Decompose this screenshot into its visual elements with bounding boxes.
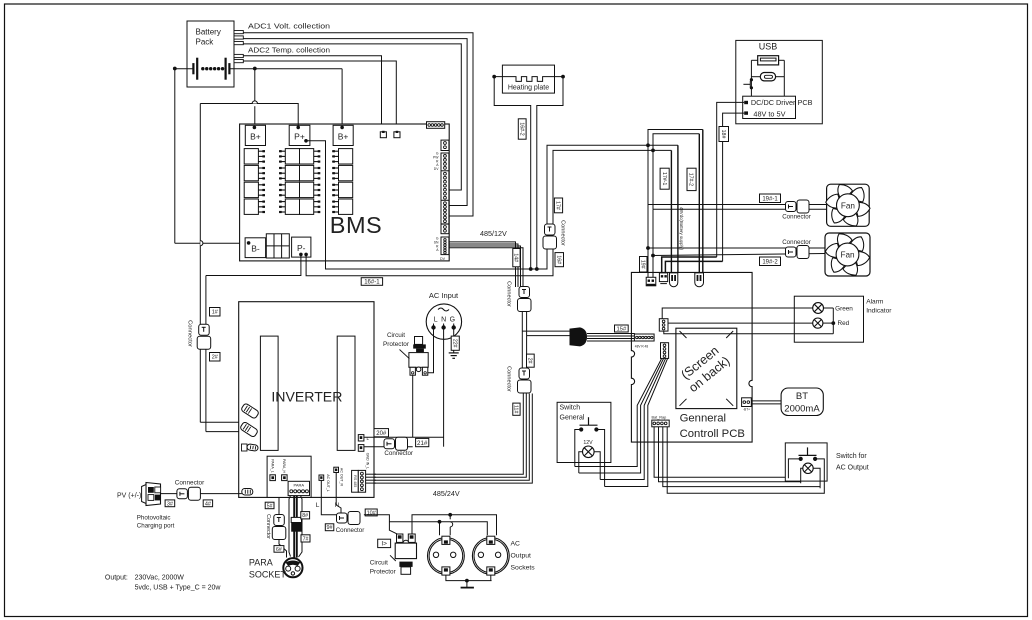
- svg-text:Output: Output: [511, 553, 532, 560]
- wire inverter L pin to connector 21# / AC-N: [364, 436, 444, 438]
- wire PARA thick pair: [293, 496, 295, 558]
- wire heating left (16#-2): [494, 77, 531, 269]
- svg-text:DV: DV: [434, 167, 439, 171]
- GND pin (AC in): [358, 445, 364, 452]
- green lamp: [813, 303, 824, 314]
- svg-text:N: N: [441, 317, 446, 324]
- label 16#-2: [518, 119, 526, 139]
- svg-text:-BT+: -BT+: [743, 408, 750, 412]
- label 2# (lower 485): [527, 354, 535, 367]
- inverter heatsink bar left: [260, 336, 278, 450]
- svg-text:Connector: Connector: [782, 239, 811, 246]
- USB-A connector: [758, 56, 779, 65]
- svg-text:Connector: Connector: [559, 220, 565, 246]
- BMS right edge connector c6: [441, 237, 449, 255]
- svg-text:I>: I>: [381, 541, 387, 548]
- connector 5#/6# plug: [274, 515, 285, 526]
- svg-text:5vdc, USB + Type_C = 20w: 5vdc, USB + Type_C = 20w: [135, 584, 222, 591]
- svg-text:48V to 5V: 48V to 5V: [753, 109, 785, 118]
- svg-text:Connector: Connector: [782, 213, 811, 220]
- AC input tilde: [438, 308, 449, 311]
- wire 48V+ long run from P+ dot: [304, 139, 308, 143]
- BMS top-right pin header: [427, 122, 445, 129]
- svg-text:ADC1 Volt. collection: ADC1 Volt. collection: [248, 22, 330, 31]
- svg-text:12V: 12V: [583, 440, 593, 446]
- AC OUT_L pin: [319, 475, 324, 480]
- ferrite blob (black): [570, 327, 588, 346]
- label 21#: [416, 438, 429, 446]
- junction dots heating to 48V bus: [529, 267, 533, 271]
- switch general box: [557, 402, 611, 462]
- svg-text:Charging port: Charging port: [137, 523, 175, 530]
- svg-text:19#: 19#: [639, 260, 645, 269]
- harness pcb to switch general (4 wires): [575, 358, 662, 466]
- AC switch pushbutton: [807, 447, 809, 455]
- label 8#: [301, 512, 310, 519]
- fan 2: [825, 233, 870, 276]
- svg-text:AC Input: AC Input: [429, 291, 459, 300]
- wire 18# jog to control pcb: [662, 257, 717, 273]
- svg-text:Sockets: Sockets: [511, 565, 536, 572]
- label 6#: [274, 546, 284, 553]
- AC input socket circle: [426, 304, 461, 339]
- alarm connector 3pin: [659, 319, 668, 331]
- label 20#: [374, 429, 389, 437]
- harness pcb Bat_Rap to AC switch (4 wires): [654, 427, 788, 477]
- svg-text:14#: 14#: [513, 253, 519, 262]
- label 22#: [451, 336, 459, 350]
- spade terminal input +: [241, 403, 260, 419]
- battery cells symbol: [175, 68, 194, 70]
- svg-text:Green: Green: [835, 305, 853, 312]
- label 19#: [640, 257, 648, 273]
- spade terminal aux with tag: [242, 444, 248, 451]
- label 19#-2: [760, 257, 781, 266]
- svg-text:Photovoltaic: Photovoltaic: [137, 515, 171, 522]
- wire ADC1-3: [243, 44, 461, 190]
- BMS temp sense pins: [380, 132, 386, 138]
- wire CP1 left tab down to inverter AC feed: [412, 375, 414, 437]
- svg-text:10#: 10#: [367, 510, 377, 516]
- label 1#: [210, 308, 221, 317]
- connector AC output harness: [337, 513, 348, 523]
- svg-text:48Vdc(Battery supply): 48Vdc(Battery supply): [679, 207, 684, 251]
- wires fan2 feed: [648, 247, 825, 249]
- wire PARA aux left: [278, 497, 280, 514]
- AC output socket 1: [428, 538, 465, 575]
- BMS right edge connector c3: [441, 171, 449, 201]
- AC input pins: [433, 324, 435, 328]
- svg-text:RS 485: RS 485: [353, 475, 357, 487]
- label 9#: [325, 524, 334, 531]
- AC OUT_R pin: [334, 467, 339, 472]
- wire heating right: [537, 77, 563, 269]
- svg-text:USB: USB: [759, 42, 778, 52]
- battery pack box: [187, 21, 234, 87]
- wire PARA aux right: [299, 496, 303, 557]
- terminal B+ (left): [245, 125, 265, 145]
- svg-text:P-: P-: [297, 243, 306, 253]
- svg-text:Fan: Fan: [840, 251, 855, 260]
- svg-text:9#: 9#: [326, 525, 333, 531]
- svg-text:11#: 11#: [513, 405, 519, 413]
- svg-text:P+: P+: [294, 132, 305, 142]
- connector 1#/2# inline plug: [199, 324, 210, 335]
- spade terminal input -: [240, 421, 259, 437]
- svg-text:2#: 2#: [526, 358, 532, 364]
- BMS right edge connector c4: [441, 200, 449, 224]
- wire ADC2-1: [243, 56, 381, 132]
- lamp 12V: [583, 446, 595, 458]
- PARA connector: [288, 481, 309, 495]
- label 5#: [265, 502, 274, 509]
- switch general internal wiring: [575, 430, 581, 467]
- ground bar: [461, 587, 474, 589]
- DC/DC driver PCB box: [743, 96, 796, 118]
- circuit protector 2 (output): [397, 534, 403, 542]
- BMS right edge connector c5: [441, 224, 449, 234]
- USB ground tick: [743, 83, 750, 85]
- svg-text:AC Output: AC Output: [836, 465, 869, 472]
- AC switch wiring: [788, 459, 800, 478]
- wire stubs ferrite bundle into 15# connector: [631, 333, 635, 335]
- svg-text:Output:: Output:: [105, 575, 128, 582]
- 485 tap wires to ferrite: [522, 330, 569, 332]
- wire 18# from DC/DC pin2: [723, 113, 745, 261]
- fuse grid between B- and P-: [266, 234, 289, 258]
- wire stubs RS485 to 485/24V bundle: [366, 473, 376, 475]
- PARA sub box: [267, 456, 311, 497]
- svg-text:Connector: Connector: [336, 527, 365, 534]
- svg-text:Controll PCB: Controll PCB: [680, 428, 745, 440]
- svg-text:17#: 17#: [555, 201, 561, 210]
- svg-text:B+: B+: [338, 132, 349, 142]
- pcb top bullet connector 4: [695, 273, 704, 287]
- USB box: [736, 40, 823, 123]
- svg-text:PARA_H: PARA_H: [282, 459, 286, 474]
- connector 4pin (switch general harness): [661, 343, 669, 359]
- svg-text:N: N: [335, 502, 340, 509]
- svg-text:Heating plate: Heating plate: [508, 85, 549, 92]
- USB wire dots: [750, 78, 753, 81]
- svg-text:19#-2: 19#-2: [762, 259, 778, 265]
- USB wiring right: [779, 59, 785, 61]
- circuit protector 1 (AC input): [415, 337, 423, 345]
- text (Screen on back) rotated: [677, 342, 733, 395]
- ferrite on PARA pair: [291, 523, 301, 532]
- svg-text:Bat_Rap: Bat_Rap: [652, 415, 667, 419]
- PARA socket (DIN): [283, 558, 302, 577]
- svg-text:18#: 18#: [720, 130, 726, 139]
- svg-text:20#: 20#: [376, 431, 387, 437]
- label 18#: [719, 127, 729, 142]
- svg-text:16#-2: 16#-2: [518, 122, 524, 135]
- MOSFET bank 3 (under B+ right): [339, 149, 353, 164]
- switch general pushbutton: [588, 417, 590, 425]
- wire P- return to inverter: [206, 254, 301, 275]
- wire ADC1-1: [243, 33, 473, 216]
- svg-text:7#: 7#: [303, 536, 309, 542]
- label 17#-1: [660, 168, 669, 189]
- wire 48V- long run from P-: [306, 150, 671, 275]
- wires fan1 feed: [648, 204, 827, 206]
- svg-text:485/24V: 485/24V: [433, 489, 460, 498]
- svg-text:6#: 6#: [276, 547, 282, 553]
- svg-text:2#: 2#: [212, 355, 219, 361]
- svg-text:Switch: Switch: [560, 405, 581, 412]
- General Control PCB outline: [631, 272, 752, 442]
- pcb top connector conn2: [659, 273, 667, 282]
- label 7#: [301, 535, 310, 542]
- PV plug symbol: [146, 483, 161, 506]
- BT connector on pcb right edge: [742, 398, 752, 407]
- svg-text:BMS: BMS: [330, 212, 382, 238]
- fan 1: [827, 184, 870, 226]
- connector 3#/4# plug: [177, 489, 188, 499]
- wires ferrite to 15# connector: [587, 333, 634, 335]
- svg-text:B+: B+: [250, 132, 261, 142]
- label I> box: [378, 539, 391, 547]
- svg-text:4#: 4#: [205, 501, 212, 507]
- label 17#-2: [687, 168, 696, 190]
- wires 485/24V risers to inverter RS485: [366, 394, 524, 475]
- 485 bus pair between connectors: [521, 312, 523, 369]
- svg-text:21#: 21#: [417, 440, 428, 447]
- svg-text:Connector: Connector: [265, 514, 271, 539]
- PARA_H pin: [282, 475, 288, 481]
- svg-text:485/12V: 485/12V: [480, 229, 507, 238]
- wire AC OUT_L down to output connector: [321, 480, 337, 514]
- svg-text:Connector: Connector: [186, 320, 192, 347]
- wire ADC2-2: [243, 61, 396, 132]
- svg-text:22#: 22#: [451, 339, 457, 348]
- screen box: [676, 328, 737, 408]
- svg-text:L: L: [434, 317, 438, 324]
- inverter heatsink bar right: [337, 336, 355, 450]
- wire battery negative down to B-: [174, 69, 176, 244]
- label 15#: [615, 325, 629, 332]
- connector fan2: [786, 247, 797, 257]
- svg-text:General: General: [560, 414, 585, 421]
- svg-text:3#: 3#: [167, 501, 174, 507]
- svg-text:Connector: Connector: [175, 479, 205, 486]
- wire 17#-2 upper jog (right): [653, 134, 699, 151]
- alarm box: [794, 296, 863, 342]
- wires pcb to BT: [751, 400, 781, 402]
- DC/DC input pins: [744, 101, 748, 104]
- Bat_Rap connector 4pin horizontal: [652, 420, 669, 427]
- label 19#-1: [760, 194, 781, 203]
- heating element symbol: [494, 77, 563, 82]
- wire 19# pair down to fans and control pcb: [647, 145, 649, 204]
- svg-text:AC OUT_L: AC OUT_L: [326, 474, 330, 492]
- svg-text:Red: Red: [838, 320, 850, 327]
- svg-text:Circuit: Circuit: [370, 559, 388, 566]
- MOSFET bank 1 (under B+ left): [244, 149, 258, 164]
- svg-text:17#-1: 17#-1: [661, 172, 667, 185]
- screen corner marks: [680, 331, 687, 338]
- label 2#: [210, 353, 221, 362]
- svg-text:BT: BT: [796, 391, 808, 402]
- junction dots fan2: [646, 246, 650, 250]
- svg-text:PV (+/-): PV (+/-): [117, 493, 141, 500]
- wire L line from fuse2 to socket tops: [412, 515, 497, 535]
- svg-text:19#-1: 19#-1: [762, 196, 778, 202]
- svg-text:16#-1: 16#-1: [364, 280, 380, 286]
- svg-text:INVERTER: INVERTER: [271, 389, 342, 405]
- svg-text:G: G: [450, 317, 455, 324]
- junction dots 19# on 48V rails: [646, 143, 650, 147]
- svg-text:PARA: PARA: [249, 558, 273, 568]
- BMS board outline: [240, 124, 450, 261]
- leader line circuit protector 2: [390, 555, 396, 561]
- label 14#: [513, 249, 520, 267]
- svg-text:Circuit: Circuit: [387, 332, 405, 339]
- 15# pin connector on pcb left edge: [634, 334, 654, 341]
- terminal B- box: [245, 238, 266, 258]
- wire output to fuse2: [364, 515, 399, 535]
- svg-text:Protector: Protector: [370, 569, 397, 576]
- connector inline on 485 bus (lower): [519, 368, 530, 379]
- spade terminal PV input: [242, 488, 253, 495]
- svg-text:8#: 8#: [302, 513, 308, 519]
- RS485 block: [352, 470, 359, 492]
- svg-text:Connector: Connector: [505, 366, 511, 392]
- pcb top bullet connector 3: [670, 273, 678, 287]
- svg-text:PARA: PARA: [293, 482, 304, 487]
- svg-text:Protector: Protector: [383, 341, 410, 348]
- svg-text:Connector: Connector: [384, 450, 413, 457]
- svg-text:5#: 5#: [267, 503, 273, 509]
- PARA_L pin: [270, 475, 276, 481]
- wire ADC1-2: [243, 39, 467, 206]
- terminal P+: [289, 125, 310, 145]
- svg-text:AC: AC: [511, 541, 521, 548]
- AC switch box: [785, 443, 827, 481]
- svg-text:GND IN_L: GND IN_L: [366, 453, 370, 470]
- inverter box: [239, 302, 374, 498]
- connector inline on 48V pair (17#): [545, 224, 556, 235]
- svg-text:Switch for: Switch for: [836, 453, 867, 460]
- red lamp: [813, 318, 823, 328]
- wire AC-G to ground: [453, 330, 455, 353]
- junction dot battery negative: [173, 67, 177, 71]
- label 3#: [165, 500, 175, 507]
- pcb top connector for 19# (conn1): [646, 277, 656, 286]
- wire AC-L to circuit protector: [426, 330, 434, 373]
- wire N line to socket tops: [389, 522, 487, 535]
- svg-text:Genneral: Genneral: [680, 413, 726, 425]
- terminal B+ (right): [333, 125, 353, 145]
- svg-text:PARA_L: PARA_L: [270, 459, 274, 473]
- wire P+ top feed (to inverter +): [200, 104, 298, 128]
- svg-text:Battery: Battery: [196, 28, 221, 37]
- MOSFET bank 2 (under P+, double column): [285, 149, 299, 164]
- svg-text:ADC2 Temp. collection: ADC2 Temp. collection: [248, 46, 330, 55]
- label 10#: [365, 509, 377, 516]
- wires 485/12V from BMS c6: [449, 242, 516, 287]
- alarm lamp return wiring: [824, 307, 834, 309]
- BMS right edge connector c2: [441, 153, 449, 171]
- AC switch lamp: [803, 463, 813, 473]
- label 11#: [513, 403, 520, 415]
- USB wiring left: [751, 59, 757, 61]
- BT 2000mA box: [781, 388, 823, 416]
- svg-text:1#: 1#: [212, 310, 219, 316]
- svg-text:16#: 16#: [555, 255, 561, 264]
- svg-text:Fan: Fan: [841, 201, 856, 210]
- wire inverter GND pin to CP1: [364, 446, 413, 448]
- svg-text:AC OUT_R: AC OUT_R: [340, 468, 344, 487]
- wire stubs crossing pcb top edge (19# pair): [647, 272, 649, 277]
- BMS right edge connector c1: [441, 140, 449, 150]
- svg-text:Pack: Pack: [196, 38, 215, 47]
- svg-text:DC/DC Driver PCB: DC/DC Driver PCB: [751, 98, 813, 107]
- L pin (AC in): [358, 435, 364, 441]
- wire AC OUT_R down to output connector: [336, 473, 341, 513]
- svg-text:48V R 48: 48V R 48: [635, 345, 649, 349]
- svg-text:L: L: [316, 502, 320, 509]
- svg-text:2000mA: 2000mA: [784, 404, 820, 415]
- svg-text:SOCKET: SOCKET: [249, 570, 287, 580]
- socket ground wiring: [446, 575, 492, 581]
- svg-text:B-: B-: [251, 244, 260, 254]
- svg-text:Alarm: Alarm: [866, 299, 884, 306]
- svg-text:230Vac, 2000W: 230Vac, 2000W: [135, 575, 185, 582]
- heating plate box: [502, 65, 554, 93]
- terminal P- box: [292, 237, 311, 257]
- leader line circuit protector 1: [400, 350, 410, 359]
- wire 18# from DC/DC pin1: [717, 102, 745, 257]
- label 16#-1: [361, 278, 382, 286]
- connector fan1: [786, 202, 797, 212]
- svg-text:15#: 15#: [617, 327, 627, 333]
- svg-text:DV: DV: [440, 257, 446, 261]
- AC output socket 2: [472, 538, 509, 575]
- svg-text:17#-2: 17#-2: [688, 173, 694, 186]
- svg-text:Indicator: Indicator: [866, 308, 892, 315]
- wires pcb to alarm lamps: [662, 308, 813, 319]
- heating plate terminal dots: [492, 75, 496, 79]
- connector inline on 485 bus (upper): [519, 287, 530, 298]
- label 17#: [554, 198, 562, 213]
- svg-text:Connector: Connector: [505, 281, 511, 307]
- label 4#: [203, 500, 212, 507]
- wire battery positive to B+ and second B+: [229, 68, 342, 70]
- label 16#: [555, 253, 564, 267]
- connector AC input harness: [384, 439, 395, 449]
- wire AC-N down to inverter feed: [443, 330, 445, 447]
- battery pack ADC pins: [234, 31, 243, 34]
- wire 17#-2 upper jog (left): [648, 130, 703, 146]
- ground symbol AC input: [449, 352, 459, 354]
- USB-C connector: [760, 73, 775, 81]
- wire PV to inverter: [161, 493, 242, 495]
